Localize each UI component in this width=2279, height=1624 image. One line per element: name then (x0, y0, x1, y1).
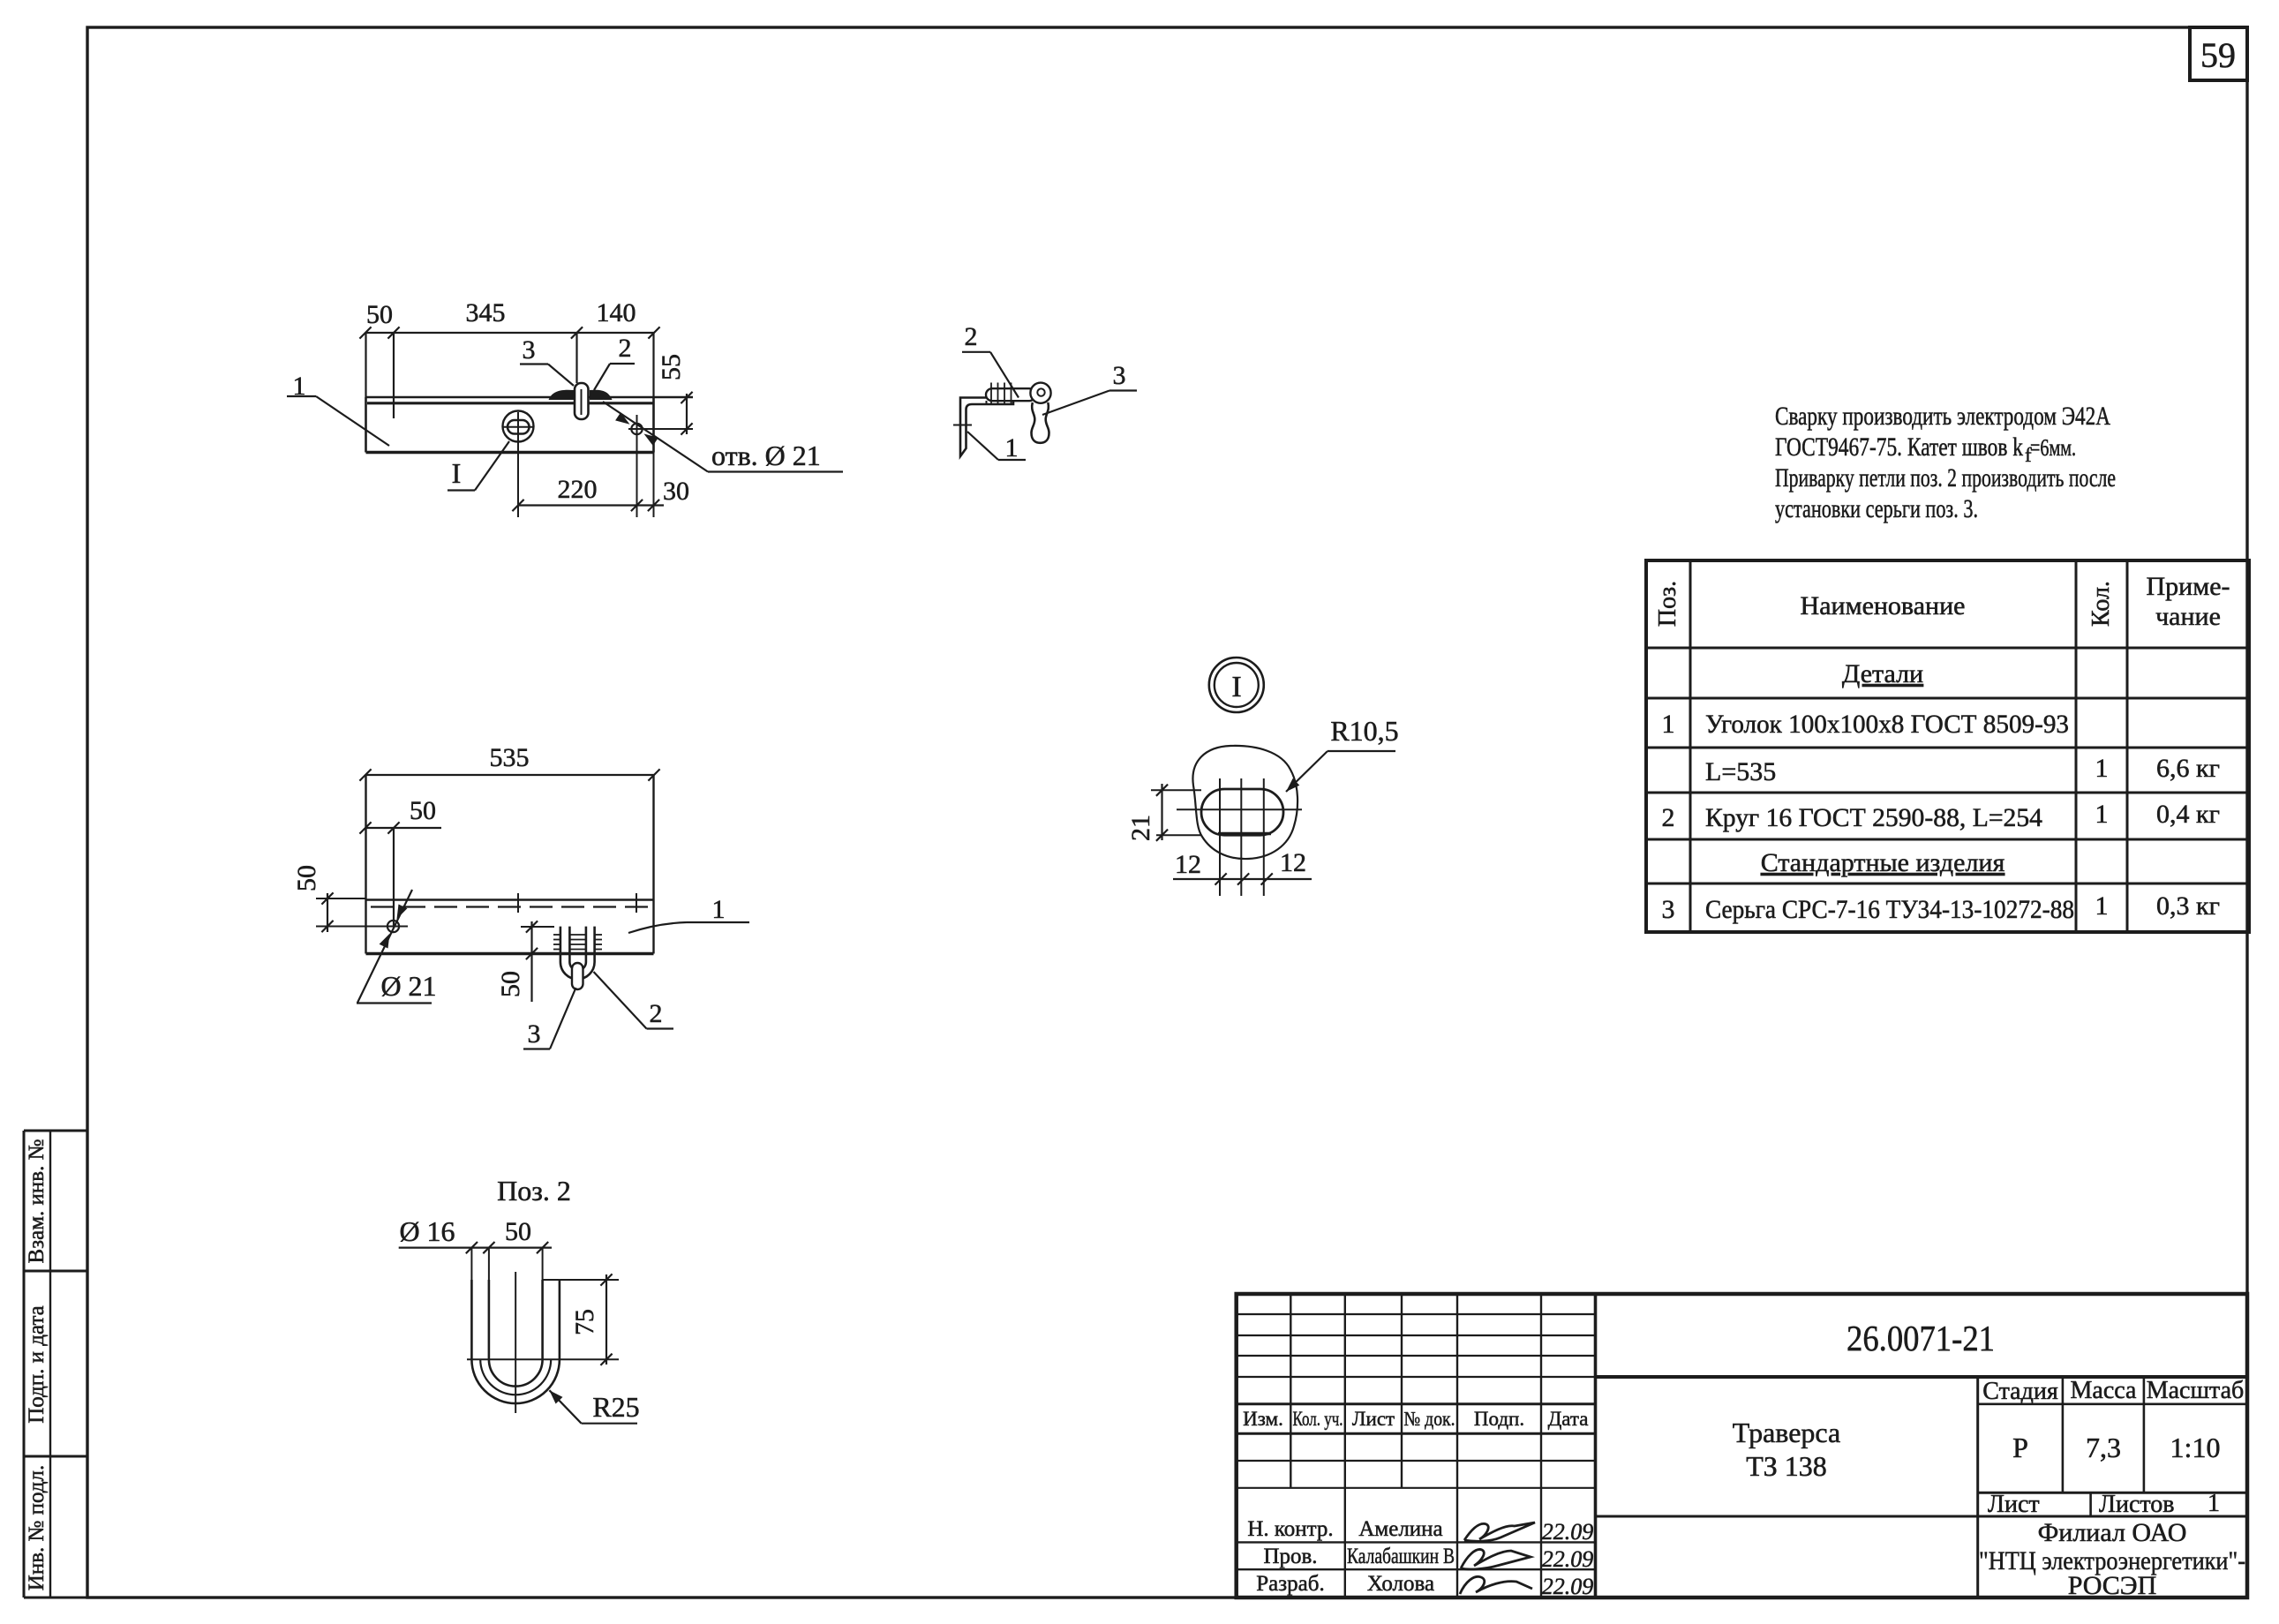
svg-text:отв. Ø 21: отв. Ø 21 (711, 440, 821, 471)
front view: weld hatching (553, 934, 560, 936)
svg-text:Холова: Холова (1367, 1572, 1434, 1596)
svg-text:Сварку производить электродом: Сварку производить электродом Э42А (1775, 402, 2110, 431)
svg-text:75: 75 (570, 1309, 599, 1335)
pos2: center lines (515, 1272, 516, 1413)
title block: revision sub-table verticals (1290, 1294, 1291, 1488)
plan view: weld bead left (549, 390, 575, 400)
svg-text:345: 345 (466, 298, 506, 327)
svg-text:0,3 кг: 0,3 кг (2156, 891, 2220, 921)
svg-text:R25: R25 (592, 1391, 639, 1423)
svg-text:чание: чание (2155, 602, 2221, 631)
svg-text:3: 3 (528, 1019, 541, 1049)
svg-text:Поз.: Поз. (1654, 581, 1681, 627)
front view: dimension 535 (365, 774, 654, 776)
svg-text:Листов: Листов (2099, 1491, 2175, 1518)
svg-text:26.0071-21: 26.0071-21 (1847, 1318, 1995, 1358)
plan view: slotted hole with detail circle I (503, 411, 534, 442)
svg-text:1: 1 (2095, 754, 2109, 783)
detail I: indicator circle (1209, 658, 1264, 712)
plan view: extension lines (365, 333, 366, 397)
front view: dimension 50 left (327, 893, 328, 932)
side view: weld hatching (990, 383, 992, 405)
parts table grid (1646, 560, 2249, 932)
svg-text:50: 50 (505, 1217, 531, 1246)
svg-text:Филиал ОАО: Филиал ОАО (2038, 1518, 2187, 1547)
svg-text:3: 3 (523, 335, 536, 365)
svg-text:535: 535 (490, 743, 530, 772)
pos2: dimension 75 (605, 1274, 607, 1365)
svg-text:3: 3 (1662, 895, 1675, 924)
front view: loop item 2 (U hanging) (560, 927, 595, 980)
svg-text:Пров.: Пров. (1263, 1545, 1317, 1568)
svg-text:Масштаб: Масштаб (2147, 1377, 2245, 1404)
svg-text:Наименование: Наименование (1801, 591, 1966, 620)
svg-text:50: 50 (496, 971, 525, 997)
svg-text:Н. контр.: Н. контр. (1247, 1517, 1333, 1541)
svg-text:Приварку петли поз. 2 производ: Приварку петли поз. 2 производить после (1775, 463, 2116, 492)
front view: hole d21 (387, 921, 399, 932)
svg-text:I: I (452, 457, 462, 489)
svg-text:12: 12 (1280, 848, 1306, 877)
svg-text:1: 1 (2095, 891, 2109, 921)
svg-text:50: 50 (410, 796, 436, 825)
svg-text:1:10: 1:10 (2170, 1432, 2221, 1463)
svg-text:Подп.: Подп. (1474, 1408, 1524, 1430)
svg-text:22.09: 22.09 (1542, 1546, 1594, 1572)
svg-text:2: 2 (619, 334, 632, 363)
svg-text:Стандартные изделия: Стандартные изделия (1761, 848, 2005, 877)
front view: body extensions (365, 775, 366, 954)
detail I: dimension 21 (1161, 784, 1162, 840)
svg-text:РОСЭП: РОСЭП (2068, 1571, 2157, 1600)
svg-text:=6мм.: =6мм. (2030, 434, 2076, 461)
detail I: dimension 12 12 (1173, 878, 1312, 880)
svg-text:220: 220 (558, 475, 598, 504)
svg-text:Лист: Лист (1988, 1491, 2040, 1518)
svg-text:6,6 кг: 6,6 кг (2156, 754, 2220, 783)
svg-text:Амелина: Амелина (1358, 1517, 1442, 1541)
svg-text:2: 2 (965, 322, 978, 351)
plan view: hole d21 (631, 424, 642, 434)
svg-text:Кол.: Кол. (2087, 581, 2115, 627)
svg-text:L=535: L=535 (1705, 757, 1776, 786)
svg-text:Дата: Дата (1548, 1408, 1589, 1430)
svg-text:Уголок 100х100х8 ГОСТ 8509-93: Уголок 100х100х8 ГОСТ 8509-93 (1705, 710, 2069, 739)
svg-text:2: 2 (650, 999, 663, 1028)
svg-text:установки серьги поз. 3.: установки серьги поз. 3. (1775, 494, 1978, 523)
plan view: dimension 30 (637, 504, 664, 506)
svg-text:Масса: Масса (2071, 1377, 2138, 1404)
plan view: dimension line 50/345/140 (365, 332, 654, 334)
detail I: freehand boundary blob (1192, 746, 1297, 859)
title block: stage/mass/scale block (1976, 1377, 1979, 1598)
svg-text:2: 2 (1662, 803, 1675, 832)
svg-text:21: 21 (1126, 815, 1155, 841)
signature squiggle 2 (1461, 1549, 1531, 1569)
title block: revision sub-table horizontals (1237, 1313, 1596, 1315)
detail I: center lines (1177, 808, 1302, 810)
svg-text:Кол. уч.: Кол. уч. (1293, 1408, 1343, 1430)
svg-text:Подп. и дата: Подп. и дата (25, 1305, 49, 1424)
plan view: loop rod end (item 2) (575, 383, 589, 419)
plan view: weld bead right (590, 390, 613, 400)
front view: leader Ø 21 (357, 890, 412, 1003)
svg-text:Лист: Лист (1352, 1408, 1395, 1430)
svg-text:Калабашкин В: Калабашкин В (1347, 1545, 1455, 1568)
svg-text:I: I (1231, 671, 1241, 703)
svg-text:ТЗ 138: ТЗ 138 (1746, 1450, 1827, 1482)
svg-text:Разраб.: Разраб. (1256, 1572, 1324, 1596)
svg-text:1: 1 (1005, 433, 1019, 462)
side view (top middle): angle profile item 1 (960, 398, 1013, 457)
svg-text:R10,5: R10,5 (1330, 715, 1398, 747)
svg-text:Поз. 2: Поз. 2 (497, 1175, 571, 1207)
svg-text:30: 30 (663, 477, 689, 506)
signature squiggle 3 (1460, 1576, 1532, 1594)
side view: loop rod item 2 (986, 388, 1035, 401)
title block: name cell Траверса ТЗ 138 (1596, 1515, 2248, 1518)
front view: dimension 50 top (365, 827, 441, 829)
svg-text:0,4 кг: 0,4 кг (2156, 800, 2220, 829)
svg-text:Ø 21: Ø 21 (380, 970, 436, 1002)
signature squiggle 1 (1464, 1522, 1535, 1541)
svg-text:Ø 16: Ø 16 (399, 1215, 455, 1247)
svg-text:12: 12 (1175, 850, 1201, 879)
svg-text:Детали: Детали (1842, 659, 1923, 688)
svg-text:№ док.: № док. (1404, 1408, 1455, 1430)
svg-text:3: 3 (1113, 361, 1126, 390)
pos2: U-loop item 2 (470, 1280, 473, 1359)
front view: dimension 50 bottom (530, 921, 532, 1002)
plan view: angle body item 1 (top view) (366, 396, 694, 398)
svg-text:ГОСТ9467-75. Катет швов k: ГОСТ9467-75. Катет швов k (1775, 432, 2023, 462)
plan view: dimension 55 (686, 394, 688, 434)
svg-text:Стадия: Стадия (1982, 1378, 2058, 1405)
svg-text:1: 1 (2208, 1490, 2220, 1517)
svg-text:1: 1 (712, 895, 726, 924)
svg-text:Инв. № подл.: Инв. № подл. (25, 1465, 49, 1590)
plan view: dimension 220 (518, 504, 637, 506)
svg-text:Взам. инв. №: Взам. инв. № (25, 1139, 49, 1263)
title block: sheet row (2089, 1492, 2092, 1516)
title block: document number cell (1596, 1375, 2248, 1379)
svg-text:Приме-: Приме- (2146, 572, 2230, 601)
svg-text:55: 55 (657, 354, 686, 380)
svg-text:59: 59 (2200, 35, 2236, 75)
svg-text:Серьга СРС-7-16 ТУ34-13-10272-: Серьга СРС-7-16 ТУ34-13-10272-88 (1705, 895, 2074, 924)
svg-text:22.09: 22.09 (1542, 1519, 1594, 1545)
svg-text:1: 1 (1662, 710, 1675, 739)
svg-text:Траверса: Траверса (1733, 1417, 1840, 1448)
svg-text:Изм.: Изм. (1243, 1408, 1283, 1430)
detail I: slotted hole (1201, 789, 1283, 835)
svg-text:22.09: 22.09 (1542, 1574, 1594, 1599)
svg-text:140: 140 (597, 298, 636, 327)
svg-text:1: 1 (2095, 800, 2109, 829)
left margin strip cells (24, 1130, 86, 1132)
front view: angle body item 1 (front) (366, 898, 654, 901)
pos2: dimension line Ø16 / 50 (399, 1246, 552, 1248)
svg-text:Р: Р (2012, 1432, 2028, 1463)
svg-text:50: 50 (366, 300, 393, 329)
title block outer frame (1237, 1294, 2247, 1598)
svg-text:Круг 16 ГОСТ 2590-88, L=254: Круг 16 ГОСТ 2590-88, L=254 (1705, 803, 2042, 832)
svg-text:7,3: 7,3 (2086, 1432, 2121, 1463)
side view: shackle item 3 (1032, 402, 1049, 443)
sheet number box 59 (2190, 27, 2247, 80)
front view: shackle item 3 small (572, 963, 583, 989)
svg-text:50: 50 (292, 865, 321, 891)
